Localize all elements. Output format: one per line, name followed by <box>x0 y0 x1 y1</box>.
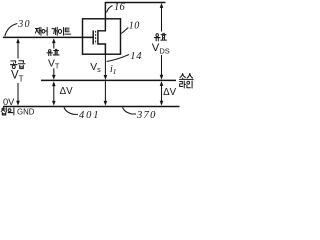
label 10 leader <box>121 28 128 34</box>
glyph 어 <box>42 27 47 35</box>
svg-text:30: 30 <box>17 19 30 30</box>
control gate bar <box>92 30 94 44</box>
glyph 게 <box>52 27 57 35</box>
text 유효 (effective) <box>47 49 59 55</box>
floating gate (dashed) <box>95 31 97 44</box>
glyph 효 <box>161 33 167 40</box>
wire: chip GND line <box>3 106 180 108</box>
svg-text:14: 14 <box>130 51 142 62</box>
current i1 arrow (cell to source line) <box>104 54 106 76</box>
wire: bit line drop to cell box <box>104 2 106 19</box>
svg-text:ΔV: ΔV <box>163 87 176 98</box>
glyph 인 <box>187 81 192 88</box>
right dV double arrow <box>161 84 163 103</box>
glyph 급 <box>18 61 25 69</box>
text 유효 (VDS) <box>154 33 166 41</box>
memory cell box 10 <box>83 19 121 54</box>
svg-text:10: 10 <box>129 20 140 31</box>
glyph 효 <box>53 49 59 55</box>
svg-text:370: 370 <box>136 110 157 120</box>
label 370 leader <box>123 107 137 114</box>
glyph 소 <box>179 73 185 79</box>
transistor channel with jog (cell left edge) <box>98 19 106 54</box>
svg-text:401: 401 <box>79 110 100 120</box>
svg-text:ΔV: ΔV <box>60 86 73 97</box>
effective VDS double arrow <box>161 6 163 77</box>
glyph 칩 <box>1 108 6 115</box>
current arrow (source line to GND) <box>104 81 106 103</box>
glyph 스 <box>187 73 193 79</box>
glyph 제 <box>35 27 41 35</box>
glyph 라 <box>180 81 186 88</box>
wire: source line level <box>41 79 176 81</box>
text 공급 (supply) <box>10 61 25 69</box>
text 소스 라인 (source line) <box>179 73 193 87</box>
label 16 leader <box>107 6 113 13</box>
glyph 유 <box>154 34 160 41</box>
text 칩의 GND <box>1 108 14 115</box>
supply VT double arrow <box>17 41 19 103</box>
svg-text:GND: GND <box>17 107 35 116</box>
svg-text:0V: 0V <box>3 97 15 107</box>
svg-text:16: 16 <box>114 2 126 13</box>
text 제어 게이트 (control gate) <box>35 27 70 35</box>
glyph 유 <box>47 50 53 56</box>
label 401 leader <box>64 107 78 114</box>
left dV double arrow (source level to GND) <box>53 84 55 103</box>
effective VT double arrow upper <box>53 41 55 77</box>
label 30 leader <box>5 24 17 37</box>
label 14 leader <box>107 55 129 62</box>
glyph 이 <box>58 27 63 35</box>
wire: control gate line <box>3 36 93 38</box>
wire: top bit-line level line <box>105 2 165 4</box>
glyph 공 <box>10 61 17 69</box>
glyph 트 <box>65 28 71 34</box>
glyph 의 <box>8 108 14 115</box>
